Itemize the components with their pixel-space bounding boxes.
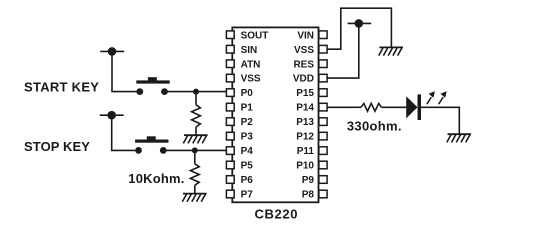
junction node at P4/R2 xyxy=(192,147,198,153)
IC U1 CB220 body xyxy=(232,27,318,202)
wire U1 P14 to resistor R3 xyxy=(327,106,361,108)
svg-text:P3: P3 xyxy=(241,132,254,143)
LED D1 emission arrow 2 xyxy=(439,91,447,104)
wire U1 VSS (right) to ground xyxy=(327,8,392,49)
svg-text:P9: P9 xyxy=(302,175,315,186)
svg-text:P7: P7 xyxy=(241,190,254,201)
junction node at P0/R1 xyxy=(193,89,199,95)
VDD rail tap for stop key (dot with bar) xyxy=(100,111,124,120)
svg-text:VSS: VSS xyxy=(241,74,261,85)
U1 pin P14 (right pin box + label) xyxy=(296,103,327,114)
svg-text:P5: P5 xyxy=(241,161,254,172)
wire from rail tap down to stop switch xyxy=(112,115,135,150)
svg-text:ATN: ATN xyxy=(241,59,261,70)
wire R1 to ground xyxy=(195,127,197,135)
ground under R2 xyxy=(182,194,206,202)
wire R2 to ground xyxy=(194,185,196,193)
svg-text:SIN: SIN xyxy=(241,45,258,56)
svg-text:P10: P10 xyxy=(296,161,314,172)
resistor R3 330ohm xyxy=(361,103,382,111)
push-button SW1 START (contacts + actuator) xyxy=(136,77,169,95)
wire LED cathode to ground xyxy=(421,107,459,134)
svg-text:P2: P2 xyxy=(241,117,254,128)
U1 pin P10 (right pin box + label) xyxy=(296,161,327,172)
svg-text:10Kohm.: 10Kohm. xyxy=(128,171,184,186)
wire from SW2 to U1 pin P4 xyxy=(163,149,226,151)
U1 pin P5 (left pin box + label) xyxy=(226,161,253,172)
U1 pin VSS (left pin box + label) xyxy=(226,74,261,85)
U1 pin P7 (left pin box + label) xyxy=(226,190,253,201)
U1 pin P2 (left pin box + label) xyxy=(226,117,253,128)
svg-text:P14: P14 xyxy=(296,103,314,114)
push-button SW2 STOP (contacts + actuator) xyxy=(135,136,168,154)
svg-text:CB220: CB220 xyxy=(254,206,298,221)
U1 pin P13 (right pin box + label) xyxy=(296,117,327,128)
svg-text:SOUT: SOUT xyxy=(241,30,269,41)
wire R3 to LED D1 xyxy=(382,106,407,108)
svg-text:P1: P1 xyxy=(241,103,254,114)
LED D1 cathode bar xyxy=(418,94,422,120)
svg-text:VDD: VDD xyxy=(293,74,314,85)
U1 pin VIN (right pin box + label) xyxy=(297,30,327,41)
svg-text:P13: P13 xyxy=(296,117,314,128)
LED D1 anode triangle xyxy=(406,96,417,118)
U1 pin RES (right pin box + label) xyxy=(293,59,327,70)
svg-text:330ohm.: 330ohm. xyxy=(347,119,402,134)
svg-text:P6: P6 xyxy=(241,175,254,186)
svg-text:P4: P4 xyxy=(241,146,254,157)
resistor R1 10K pull-down (start) xyxy=(192,105,201,127)
svg-text:START KEY: START KEY xyxy=(24,79,99,94)
wire U1 VDD to supply rail tap xyxy=(327,23,359,78)
U1 pin P6 (left pin box + label) xyxy=(226,175,253,186)
ground under R1 xyxy=(183,135,207,143)
U1 pin SOUT (left pin box + label) xyxy=(226,30,268,41)
U1 pin P9 (right pin box + label) xyxy=(302,175,327,186)
svg-text:VSS: VSS xyxy=(294,45,314,56)
VDD rail tap for start key (dot with bar) xyxy=(100,47,124,56)
ground for LED net xyxy=(447,134,471,142)
wire junction to resistor R1 xyxy=(195,92,197,105)
svg-text:P0: P0 xyxy=(241,88,254,99)
svg-text:STOP KEY: STOP KEY xyxy=(24,139,90,154)
VDD supply tap (dot with bar) xyxy=(348,19,372,28)
U1 pin VDD (right pin box + label) xyxy=(293,74,327,85)
U1 pin P15 (right pin box + label) xyxy=(296,88,327,99)
U1 pin P12 (right pin box + label) xyxy=(296,132,327,143)
U1 pin P11 (right pin box + label) xyxy=(297,146,327,157)
resistor R2 10K pull-down (stop) xyxy=(190,164,199,185)
wire junction to resistor R2 xyxy=(194,150,196,163)
U1 pin ATN (left pin box + label) xyxy=(226,59,260,70)
U1 pin P1 (left pin box + label) xyxy=(226,103,253,114)
U1 pin P0 (left pin box + label) xyxy=(226,88,253,99)
ground for VSS net xyxy=(379,47,403,55)
svg-text:RES: RES xyxy=(293,59,314,70)
U1 pin P8 (right pin box + label) xyxy=(302,190,327,201)
svg-text:P8: P8 xyxy=(302,190,315,201)
LED D1 emission arrow 1 xyxy=(427,91,435,104)
svg-text:P12: P12 xyxy=(296,132,314,143)
svg-text:P11: P11 xyxy=(297,146,315,157)
U1 pin SIN (left pin box + label) xyxy=(226,45,257,56)
U1 pin P4 (left pin box + label) xyxy=(226,146,253,157)
U1 pin P3 (left pin box + label) xyxy=(226,132,253,143)
svg-text:P15: P15 xyxy=(296,88,314,99)
svg-text:VIN: VIN xyxy=(297,30,314,41)
wire from SW1 to U1 pin P0 xyxy=(165,91,227,93)
U1 pin VSS (right pin box + label) xyxy=(294,45,327,56)
wire from rail tap down to start switch xyxy=(112,51,137,91)
